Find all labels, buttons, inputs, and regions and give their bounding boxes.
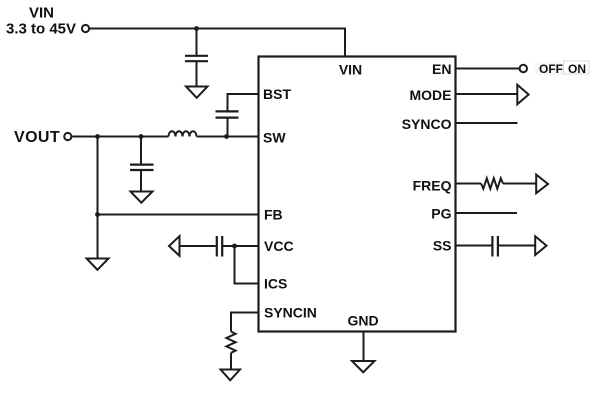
svg-text:ON: ON [568, 62, 586, 76]
svg-text:MODE: MODE [410, 87, 452, 103]
svg-text:SS: SS [433, 238, 452, 254]
svg-text:SYNCIN: SYNCIN [264, 305, 317, 321]
svg-text:ICS: ICS [264, 276, 287, 292]
svg-text:SW: SW [263, 130, 286, 146]
svg-text:GND: GND [347, 312, 378, 328]
svg-text:VIN: VIN [339, 62, 362, 78]
svg-text:VOUT: VOUT [14, 129, 60, 146]
svg-text:VCC: VCC [264, 238, 294, 254]
svg-text:FB: FB [264, 207, 283, 223]
svg-text:BST: BST [263, 86, 291, 102]
svg-text:EN: EN [432, 61, 451, 77]
svg-text:FREQ: FREQ [413, 178, 452, 194]
svg-text:OFF: OFF [539, 62, 563, 76]
svg-text:3.3 to 45V: 3.3 to 45V [6, 21, 76, 38]
svg-text:SYNCO: SYNCO [402, 116, 452, 132]
svg-text:VIN: VIN [29, 5, 54, 22]
svg-text:PG: PG [431, 206, 451, 222]
